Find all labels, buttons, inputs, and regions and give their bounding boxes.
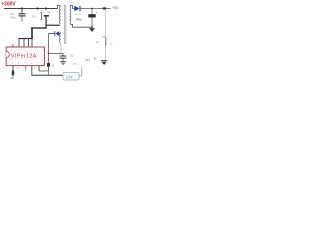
transformer T1 primary winding <box>59 6 60 24</box>
wire +5V branch down <box>104 10 106 37</box>
wire drain horizontal <box>31 27 46 29</box>
wire pin4 down <box>31 66 33 76</box>
wire drain pin bus <box>19 38 33 40</box>
wire vdd branch horizontal <box>49 52 64 54</box>
svg-text:0k: 0k <box>96 40 100 44</box>
capacitor C7 fb body <box>12 70 14 75</box>
node junction vdd <box>48 53 50 55</box>
wire +300V rail <box>4 8 58 10</box>
connector label box Lcx <box>63 72 79 80</box>
capacitor C5 output <box>88 9 97 28</box>
transformer T1 aux winding <box>59 33 60 44</box>
wire up from label box <box>81 67 83 76</box>
svg-text:1M: 1M <box>51 64 54 67</box>
wire diode to cap <box>80 8 102 10</box>
svg-text:2n: 2n <box>47 11 50 14</box>
transformer T1 secondary winding <box>70 6 71 24</box>
capacitor C2 snubber <box>44 15 49 17</box>
svg-text:R1: R1 <box>32 15 36 19</box>
svg-text:Lcx: Lcx <box>66 75 73 80</box>
capacitor C1 bulk <box>19 9 26 22</box>
wire to +5V <box>107 8 111 10</box>
svg-text:25v: 25v <box>73 63 78 66</box>
inductor L1 bead <box>102 7 106 9</box>
svg-text:450v: 450v <box>10 16 17 20</box>
node junction secondary return <box>91 26 93 28</box>
node junction rail-drain <box>45 7 47 9</box>
capacitor C6 output2 <box>103 36 106 38</box>
svg-text:1u: 1u <box>110 42 113 45</box>
wire pin5 tick <box>31 39 33 48</box>
wire drain to primary <box>45 24 59 26</box>
ground secondary <box>89 28 95 32</box>
wire fb cap lead <box>12 75 14 79</box>
wire pin3 stub <box>25 66 27 71</box>
transformer core <box>63 5 65 45</box>
svg-text:+5V: +5V <box>112 6 119 10</box>
node junction rail-snubber <box>36 7 38 9</box>
svg-text:.c: .c <box>52 45 55 48</box>
wire pin gnd down <box>38 66 40 71</box>
svg-text:VIPer12A: VIPer12A <box>11 54 37 60</box>
node junction rail-C1 <box>21 7 23 9</box>
wire gnd horizontal <box>39 70 49 72</box>
wire drain vertical <box>45 16 47 29</box>
capacitor C3 vdd body <box>47 63 50 67</box>
transformer T1 secondary lead top <box>70 6 74 9</box>
diode D3 aux <box>55 31 59 36</box>
ground vdd <box>60 62 66 65</box>
wire from label box right <box>79 75 82 77</box>
wire bottom bus <box>32 74 63 76</box>
diode D1 snubber bar <box>40 13 41 20</box>
wire pin8 tick <box>18 39 20 48</box>
wire pin7 tick <box>23 39 25 48</box>
svg-text:Vd: Vd <box>23 68 25 70</box>
wire pin1 down <box>12 66 14 71</box>
diode D2 output <box>74 6 80 11</box>
svg-text:FB: FB <box>16 68 19 70</box>
svg-text:5V1: 5V1 <box>86 59 91 62</box>
wire nc stub <box>12 44 14 47</box>
svg-text:Z1: Z1 <box>94 58 97 61</box>
ground +5V branch <box>101 61 107 65</box>
node junction output cap <box>91 8 93 10</box>
wire drain down to bus <box>31 27 33 39</box>
svg-text:10u: 10u <box>69 55 74 58</box>
wire vdd cap to bottom <box>48 71 50 75</box>
wire vdd vertical <box>48 34 50 72</box>
svg-text:+300V: +300V <box>1 1 16 7</box>
wire diode to vdd <box>49 33 55 35</box>
wire aux winding to diode <box>59 33 60 35</box>
svg-text:SB160: SB160 <box>75 14 82 16</box>
wire aux return <box>60 44 62 53</box>
IC U1 VIPer12A <box>6 47 44 66</box>
capacitor C4 vdd filter <box>60 53 67 61</box>
transformer T1 secondary lead bottom <box>70 24 92 27</box>
wire pin6 tick <box>28 39 30 48</box>
transformer T1 primary lead top <box>58 6 61 9</box>
svg-text:S: S <box>34 68 36 70</box>
